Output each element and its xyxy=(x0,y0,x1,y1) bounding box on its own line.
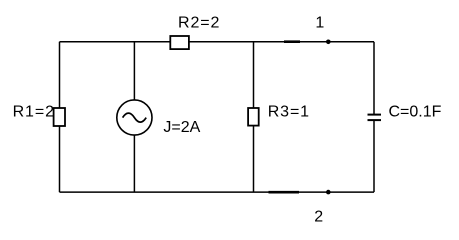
svg-text:C=0.1F: C=0.1F xyxy=(389,104,442,121)
wire bottom net xyxy=(60,191,375,193)
wire right branch upper (to capacitor) xyxy=(373,42,375,115)
svg-text:R3=1: R3=1 xyxy=(268,103,310,120)
wire left branch (R1) xyxy=(59,42,61,192)
svg-text:R2=2: R2=2 xyxy=(178,14,220,31)
resistor R3 xyxy=(248,108,259,126)
svg-text:2: 2 xyxy=(314,209,323,226)
current source sine wave xyxy=(123,113,147,122)
capacitor C top plate xyxy=(368,114,382,116)
svg-text:1: 1 xyxy=(315,14,324,31)
resistor R2 xyxy=(170,36,189,49)
capacitor C bottom plate xyxy=(368,119,382,121)
resistor R1 xyxy=(54,108,65,126)
wire right branch lower (from capacitor) xyxy=(373,120,375,192)
wire R3 branch xyxy=(253,42,255,192)
current source J (circle) xyxy=(117,100,152,135)
wire top net from left corner to right corner xyxy=(60,41,375,43)
svg-text:R1=2: R1=2 xyxy=(13,103,55,120)
wire overlap segment bottom (R3 to node 2) xyxy=(269,191,300,194)
wire current-source branch xyxy=(133,42,135,192)
wire overlap segment top (R2 to node 1) xyxy=(284,40,300,43)
svg-text:J=2A: J=2A xyxy=(163,119,200,136)
node 1 junction dot xyxy=(326,40,331,45)
node 2 junction dot xyxy=(326,190,331,195)
